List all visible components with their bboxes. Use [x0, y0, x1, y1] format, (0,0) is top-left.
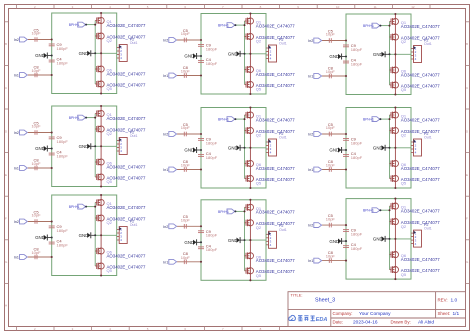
- svg-text:B: B: [466, 42, 468, 46]
- svg-text:Drawn By:: Drawn By:: [391, 319, 411, 324]
- svg-text:2023-04-16: 2023-04-16: [353, 319, 378, 325]
- svg-text:Ali Abid: Ali Abid: [418, 319, 434, 325]
- svg-text:E: E: [5, 173, 7, 177]
- svg-text:1/1: 1/1: [453, 311, 460, 317]
- svg-text:TITLE:: TITLE:: [291, 293, 303, 298]
- svg-text:H: H: [5, 304, 7, 308]
- svg-text:Sheet_3: Sheet_3: [315, 298, 335, 304]
- svg-text:1.0: 1.0: [451, 298, 458, 304]
- svg-text:F: F: [5, 217, 7, 221]
- svg-text:REV:: REV:: [438, 298, 448, 303]
- svg-text:11: 11: [374, 5, 377, 9]
- svg-text:Your Company: Your Company: [359, 311, 391, 317]
- svg-text:10: 10: [336, 5, 340, 9]
- svg-text:Sheet:: Sheet:: [438, 311, 451, 316]
- svg-text:E: E: [466, 173, 468, 177]
- svg-text:F: F: [466, 217, 468, 221]
- svg-text:Date:: Date:: [333, 319, 344, 324]
- svg-text:B: B: [5, 42, 7, 46]
- svg-text:Company:: Company:: [333, 311, 353, 316]
- svg-text:EDA: EDA: [316, 317, 328, 323]
- svg-text:12: 12: [411, 5, 415, 9]
